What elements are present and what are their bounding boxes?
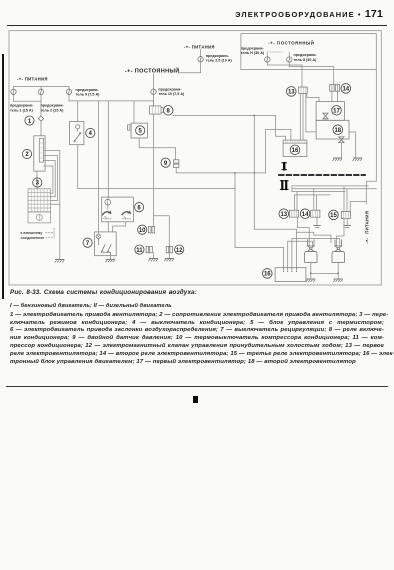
resistor R2 (blower resistor) — [34, 136, 45, 171]
relay 15 (diesel) — [341, 211, 350, 218]
wire: unit 5 to pressure sensor 9 — [139, 138, 175, 160]
junction — [253, 115, 255, 117]
wire: second mid vertical drop — [235, 173, 284, 248]
wire + ground below 11 — [153, 253, 155, 258]
control unit 5 with thermistor — [127, 123, 147, 138]
svg-text:-+- ПИТАНИЯ: -+- ПИТАНИЯ — [17, 77, 48, 82]
svg-text:тель 1 (15 А): тель 1 (15 А) — [10, 108, 34, 112]
wire: fuse1 to fuse2 junction — [14, 100, 42, 102]
node circle 13 (diesel) — [279, 209, 289, 219]
node circle 3 — [33, 178, 42, 187]
wire + second ground — [349, 132, 356, 157]
svg-text:предохрани-: предохрани- — [76, 88, 100, 92]
idle valve 12 connector — [166, 246, 172, 252]
wire: ECU pin riser 3 — [296, 229, 298, 267]
wire: resistor tap 2 — [44, 156, 58, 201]
node circle 18 — [333, 125, 343, 135]
node circle 14 (diesel) — [300, 209, 310, 219]
svg-text:-+-: -+- — [364, 238, 369, 244]
wire: bus drop to flap motor 6 — [107, 101, 109, 199]
wire: bus end down to relay 8 — [153, 101, 155, 106]
node circle 8 — [163, 106, 173, 116]
svg-text:предохрани-: предохрани- — [206, 54, 230, 58]
recirc switch 7 — [95, 232, 117, 256]
wire: bowtie 17 stub — [325, 119, 327, 120]
svg-text:-+- ПОСТОЯННЫЙ: -+- ПОСТОЯННЫЙ — [125, 67, 180, 75]
wire: relay 13 to fan frame — [306, 93, 316, 131]
fuse F9 (7.5A) — [68, 87, 70, 101]
compressor 11 connector — [146, 246, 152, 252]
svg-text:тель 10 (7,5 А): тель 10 (7,5 А) — [158, 92, 185, 96]
separator: diesel engine mark II — [280, 181, 288, 190]
wire: flap motor 6 to recirc switch 7 — [107, 222, 109, 232]
wire: diesel bus 4 — [295, 194, 331, 196]
node circle 12 — [175, 245, 184, 254]
wire + ground under fan 18 — [340, 143, 342, 158]
node circle 2 — [22, 149, 31, 158]
junctions on long run — [234, 172, 236, 174]
wire: diesel bus 3 — [292, 191, 345, 193]
fuse F1 (15A) — [13, 87, 15, 102]
svg-text:тель 2,5 (10 А): тель 2,5 (10 А) — [206, 59, 233, 63]
wire: bus to switch 4 — [77, 101, 79, 122]
svg-text:9: 9 — [164, 161, 168, 167]
svg-text:1: 1 — [28, 119, 32, 125]
switch S4: A/C switch — [70, 122, 84, 145]
wire: fan grounds tie — [311, 262, 338, 273]
fuse F2.5 (10A) — [179, 50, 201, 73]
svg-text:соединению: соединению — [21, 236, 45, 240]
relay K8: A/C engage relay — [150, 106, 164, 114]
fan 17 motor connector — [323, 113, 328, 119]
node circle 11 — [135, 245, 144, 254]
svg-text:к внешнему: к внешнему — [21, 231, 44, 235]
grounds under fans — [311, 273, 338, 278]
wire: resistor tap 3 — [44, 161, 56, 197]
svg-text:10: 10 — [139, 228, 146, 234]
fan 17 frame (petrol) — [316, 102, 344, 121]
svg-text:13: 13 — [288, 90, 295, 96]
wire: relay 13 diesel to fan 17 — [298, 217, 310, 246]
fuse F10 (7.5A) — [153, 74, 155, 106]
svg-text:4: 4 — [89, 131, 93, 137]
node circle 1: blower motor — [25, 116, 34, 125]
wire: switch 4 down and right — [78, 145, 235, 189]
node circle 15 (diesel) — [329, 210, 339, 220]
flap motor 6 — [102, 197, 134, 222]
wire + ground below 12 — [168, 253, 170, 258]
wire: bus drop to recirc switch lamp — [97, 101, 99, 234]
svg-text:ПИТАНИЯ: ПИТАНИЯ — [364, 211, 369, 234]
node connector (diamond) above blower resistor — [38, 116, 43, 121]
svg-text:предохрани-: предохрани- — [158, 87, 182, 91]
svg-text:6: 6 — [137, 205, 141, 211]
fuse F2 (15A) — [40, 87, 42, 117]
wire: relay 13 to fan 17 frame top — [307, 93, 319, 101]
coil ground under relay 15 diesel — [346, 218, 348, 225]
wire: relay 8 bottom down to 10/11 — [153, 114, 155, 227]
node circle 9 — [161, 158, 170, 167]
wire: mesh link — [297, 232, 332, 242]
svg-text:12: 12 — [176, 248, 183, 254]
svg-text:тель 8 (30 А): тель 8 (30 А) — [294, 58, 318, 62]
wire diamond to resistor — [40, 121, 42, 136]
svg-text:-+- ПИТАНИЯ: -+- ПИТАНИЯ — [184, 44, 215, 49]
constant-supply box top right — [241, 34, 376, 70]
wire: relay 15 diesel to fan 18 — [337, 218, 344, 246]
svg-text:17: 17 — [333, 109, 340, 115]
fan 18 motor connector — [339, 137, 344, 143]
wire: ECU pin riser to fan 17 — [288, 241, 313, 267]
wire: branch to valve 12 — [154, 216, 170, 248]
fan motor 18 (diesel) — [332, 240, 344, 263]
wire + ground below switch 7 — [110, 256, 112, 259]
wire: branch to relay 15 — [350, 202, 366, 212]
wire: sensor 9 long run right — [176, 167, 265, 173]
ECU 16 (diesel) — [275, 268, 306, 282]
wire: diesel bus 2 — [292, 188, 376, 190]
node circle 13 (petrol) — [287, 87, 297, 97]
coil ground under relay 14 diesel — [316, 217, 318, 225]
wire: fuse 8s to relay 14 feed — [289, 67, 333, 85]
relay 14 (diesel) — [311, 210, 320, 217]
wire: fuse H to relay 13 feed — [267, 65, 302, 87]
wire: resistor tap 4 — [44, 166, 53, 193]
node circle 6 — [135, 203, 144, 212]
wire: bus drop to control unit 5 — [133, 101, 135, 123]
svg-text:13: 13 — [280, 212, 287, 218]
svg-text:2: 2 — [25, 152, 29, 158]
svg-text:16: 16 — [264, 272, 271, 278]
relay 13 (diesel) — [290, 210, 299, 217]
thermal switch 10 connector — [148, 227, 154, 233]
wire: bundle to ground — [59, 204, 61, 259]
svg-text:предохрани-: предохрани- — [241, 46, 265, 50]
svg-text:тель 9 (7,5 А): тель 9 (7,5 А) — [76, 93, 101, 97]
wire: ECU pin riser to fan 18 — [292, 239, 340, 268]
switch S3: mode selector grid — [28, 189, 51, 223]
wire: resistor bottom to switch 3 — [36, 171, 38, 189]
svg-text:14: 14 — [342, 87, 349, 93]
fuse FH (30A) — [266, 52, 268, 65]
svg-text:-+- ПОСТОЯННЫЙ: -+- ПОСТОЯННЫЙ — [268, 41, 314, 46]
ground below switch 3 — [55, 260, 64, 263]
node circle 16 (diesel) — [263, 269, 273, 279]
svg-text:18: 18 — [334, 128, 341, 134]
separator dashed line — [279, 174, 365, 176]
wire: right border feed down with jog — [366, 70, 376, 204]
fan 18 frame (petrol) — [316, 120, 349, 139]
svg-text:5: 5 — [139, 129, 143, 135]
node circle 14 (petrol) — [341, 84, 351, 94]
svg-text:14: 14 — [302, 212, 309, 218]
wire: relay 13 pair down to ECU — [300, 93, 303, 140]
wire: left feed bus — [14, 86, 70, 88]
node circle 10 — [138, 225, 147, 234]
fan motor 17 (diesel) — [305, 240, 317, 263]
svg-text:тель Н (30 А): тель Н (30 А) — [241, 51, 265, 55]
svg-text:11: 11 — [136, 248, 143, 254]
separator: petrol engine mark I — [282, 163, 286, 170]
wire: bus left risers — [292, 186, 295, 210]
node circle 4 — [86, 128, 95, 137]
svg-text:8: 8 — [167, 109, 171, 115]
ECU 16 (petrol) — [283, 140, 307, 157]
wire: relay 8 output right — [173, 116, 286, 141]
wire: bus drops to relays — [297, 186, 347, 212]
wire: flap motor 6 loop to switch 7 — [113, 222, 126, 232]
node circle 7 — [83, 238, 92, 247]
svg-text:3: 3 — [36, 181, 40, 187]
wire: relay 14 down to fan 17 — [332, 91, 338, 101]
wire: diesel bus 1 — [292, 185, 368, 187]
wire: mid vertical junction drop — [254, 116, 296, 230]
svg-text:тель 2 (15 А): тель 2 (15 А) — [41, 108, 65, 112]
relay 13 (petrol, first fan relay) — [299, 87, 308, 93]
svg-text:7: 7 — [86, 241, 90, 247]
wire: riser to ECU upper — [265, 129, 291, 173]
fuse F8s (30A) — [288, 52, 290, 66]
diagram outer frame — [9, 31, 381, 285]
svg-text:15: 15 — [330, 213, 337, 219]
wire: ECU pin riser 4 — [283, 248, 285, 268]
wire: resistor tap 1 — [44, 150, 60, 204]
relay 14 (petrol, second fan relay) — [330, 84, 340, 91]
wire: main feed bus under fuse 9 — [69, 100, 154, 102]
node circle 16 (petrol) — [290, 145, 300, 155]
svg-text:предохрани-: предохрани- — [10, 104, 34, 108]
pressure sensor 9 connector — [174, 160, 179, 168]
svg-text:предохрани-: предохрани- — [294, 53, 318, 57]
svg-text:16: 16 — [292, 148, 299, 154]
svg-text:предохрани-: предохрани- — [41, 104, 65, 108]
node circle 17 — [332, 106, 342, 116]
node circle 5 — [136, 126, 145, 135]
